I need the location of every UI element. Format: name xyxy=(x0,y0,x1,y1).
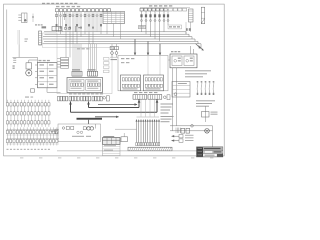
fuses right xyxy=(181,128,185,133)
marks left of F1 xyxy=(25,39,28,40)
junction label text mid xyxy=(139,26,146,29)
control unit A1 box xyxy=(38,62,58,88)
bus feed arrows to control box xyxy=(196,44,201,49)
node stub near X1 xyxy=(32,14,34,23)
note text under A2 xyxy=(185,70,211,71)
wire legend text right of K3 xyxy=(161,104,174,105)
ground bar xyxy=(128,147,172,151)
fuse matrix row 1 xyxy=(7,100,9,103)
shielded wire drops right xyxy=(196,81,199,95)
drawing frame border xyxy=(4,4,225,156)
power bus lines xyxy=(44,31,186,33)
connector X1 top-left xyxy=(22,13,28,23)
label text right of table xyxy=(168,25,182,29)
relay block K3 modules xyxy=(121,75,141,91)
junction box small xyxy=(121,137,128,142)
relay coil symbols under strip XS2 xyxy=(141,11,143,32)
enclosure outline xyxy=(58,124,101,142)
harness thick bar xyxy=(77,118,103,120)
wire from conduit down xyxy=(18,45,20,58)
socket right of K3 footer xyxy=(164,96,167,99)
control box A2 xyxy=(170,54,197,68)
notes table below xyxy=(103,144,121,155)
fuse matrix row 4 xyxy=(6,127,8,130)
enclosure left stub xyxy=(55,129,58,134)
cable run short xyxy=(95,116,119,118)
connector pinout table xyxy=(103,138,121,145)
bundle labels xyxy=(161,116,174,117)
ECU enclosure left xyxy=(57,48,112,94)
connector footers under block K3 xyxy=(133,95,147,100)
ECU enclosure right xyxy=(118,56,168,91)
wire near ladder xyxy=(185,22,187,34)
wires below A2 xyxy=(172,68,174,131)
terminal strip X5 xyxy=(61,58,69,60)
connector strip XS1 labels xyxy=(56,6,59,7)
control unit A1 label xyxy=(39,60,42,61)
wire A1 bottom xyxy=(46,88,48,93)
capacitor marks xyxy=(13,58,16,60)
terminal marks near ladder xyxy=(186,28,188,31)
label above fuse matrix xyxy=(25,97,29,98)
wire feed to pump xyxy=(13,56,38,58)
enclosure corner faint xyxy=(43,33,58,48)
fuse matrix bus 4 xyxy=(7,128,60,130)
cable run upper xyxy=(98,104,137,106)
fuse bank F1 label xyxy=(35,24,37,25)
wires into ECU right top xyxy=(134,39,136,55)
ECU to A2 link xyxy=(168,59,170,61)
wires from K3 footers down xyxy=(140,99,142,116)
relay block K2 xyxy=(67,78,103,93)
relay K1 above bus xyxy=(52,27,62,31)
signal reference table xyxy=(103,12,125,24)
terminal label 15 xyxy=(42,26,47,28)
connector headers above block K2 xyxy=(72,71,82,76)
fuse matrix row 5 xyxy=(6,136,8,139)
relay block K2 bottom label xyxy=(69,93,72,94)
resistor ladder module xyxy=(189,9,194,22)
sensor B1 xyxy=(205,106,207,122)
wire bundle drops center xyxy=(136,120,138,143)
pump relay box xyxy=(26,63,32,69)
enclosure internals xyxy=(62,127,64,129)
connector strip XS2 boxes xyxy=(140,8,143,11)
connector footers under block K2 xyxy=(58,96,60,101)
hatch marks right xyxy=(175,128,177,133)
fuse bank F1 xyxy=(39,31,42,45)
connector strip XS2 labels xyxy=(149,5,152,6)
cable run with up arrows xyxy=(70,102,72,113)
wires from strip XS1 with inline fuse symbols xyxy=(56,12,58,32)
conduit pair left xyxy=(17,30,19,45)
control box A2 label xyxy=(171,51,173,52)
bus right staircase bends xyxy=(185,32,187,34)
fuse matrix bus 5 xyxy=(7,137,60,139)
fuse matrix row 2 xyxy=(7,109,9,112)
fuse matrix labels bottom xyxy=(7,149,9,150)
small relays row mid xyxy=(110,47,114,50)
arrow connectors right xyxy=(172,135,180,137)
fuse matrix row 3 xyxy=(7,118,9,121)
long bottom wire xyxy=(57,150,197,152)
diode pair above bus xyxy=(64,27,67,30)
bottom margin zone tick text xyxy=(20,157,23,158)
relay coil on bus xyxy=(191,125,194,128)
wire vertical left feeder xyxy=(6,10,8,103)
lamp E1 xyxy=(205,129,210,134)
note text right column xyxy=(196,100,215,101)
bus lower right xyxy=(170,125,213,127)
motor M1 xyxy=(26,70,32,76)
top margin zone label text xyxy=(42,3,45,5)
title block xyxy=(197,147,223,157)
wires from table bottom xyxy=(106,24,108,35)
connector strip XS1 boxes xyxy=(56,9,59,12)
strip XS2 tie line xyxy=(140,6,190,8)
module list box xyxy=(172,82,190,98)
socket symbol right of K2 footer xyxy=(103,97,106,100)
terminal box top right xyxy=(201,7,204,24)
